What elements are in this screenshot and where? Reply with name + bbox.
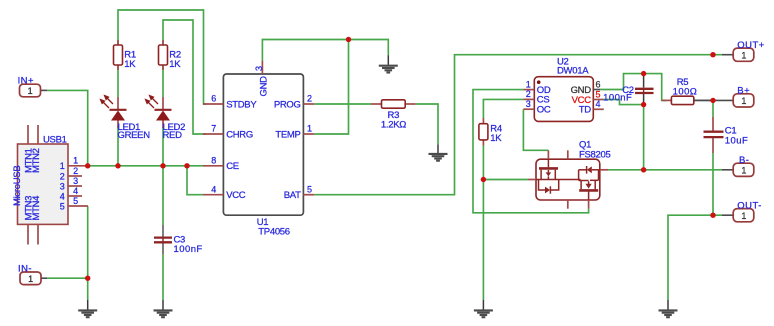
svg-text:MTN2: MTN2 — [31, 148, 42, 173]
svg-text:2: 2 — [526, 89, 531, 99]
svg-text:USB1: USB1 — [43, 135, 67, 146]
wire U2 VCC pin to C2 bottom — [603, 100, 644, 105]
svg-text:2: 2 — [73, 166, 78, 176]
svg-text:5: 5 — [73, 196, 78, 206]
svg-text:TP4056: TP4056 — [258, 227, 289, 238]
node R4/Q1 — [481, 177, 486, 182]
connector OUT- — [722, 200, 762, 222]
wire R1 top to STDBY — [118, 10, 206, 104]
svg-text:4: 4 — [73, 186, 78, 196]
resistor R2 — [159, 40, 182, 70]
wire R4 bottom to Q1 left pin and GND — [482, 146, 484, 300]
wire C3 to GND — [162, 254, 164, 299]
wire IN+ to rail — [47, 90, 87, 165]
svg-text:FS8205: FS8205 — [579, 149, 610, 160]
LED LED1 (green) — [101, 96, 151, 141]
wire C3 branch top — [162, 166, 164, 225]
svg-text:MicroUSB: MicroUSB — [12, 166, 23, 206]
wire C1 bottom to OUT- line — [712, 153, 714, 215]
node rail/IN+ — [85, 163, 90, 168]
svg-text:RED: RED — [163, 130, 183, 141]
svg-text:CHRG: CHRG — [226, 129, 253, 140]
svg-text:1K: 1K — [490, 133, 502, 144]
svg-text:1: 1 — [307, 124, 312, 134]
capacitor C3 — [154, 225, 203, 255]
connector B- — [722, 155, 754, 177]
svg-text:4: 4 — [596, 99, 601, 109]
ground (U1 GND net, top) — [379, 55, 398, 72]
svg-text:OUT-: OUT- — [737, 200, 762, 211]
node C2 top — [641, 71, 646, 76]
resistor R1 — [114, 40, 137, 70]
transistor Q1 FS8205 (dual MOSFET) — [528, 140, 610, 209]
svg-text:IN-: IN- — [18, 263, 32, 274]
svg-text:STDBY: STDBY — [226, 99, 257, 110]
node rail/LED1 — [115, 163, 120, 168]
svg-text:1: 1 — [741, 211, 746, 221]
svg-text:1: 1 — [741, 96, 746, 106]
node B+ — [710, 98, 715, 103]
svg-text:10uF: 10uF — [725, 135, 748, 146]
svg-text:B-: B- — [739, 155, 749, 166]
svg-text:1: 1 — [28, 86, 33, 96]
resistor R5 — [662, 77, 713, 104]
svg-text:VCC: VCC — [226, 190, 246, 201]
wire U2 CS to R4 — [483, 99, 523, 118]
svg-text:100nF: 100nF — [174, 244, 203, 255]
svg-text:6: 6 — [596, 79, 601, 89]
node C2 bottom — [641, 102, 646, 107]
wire BAT to OUT+ — [314, 55, 722, 195]
connector IN- — [18, 263, 47, 284]
svg-text:IN+: IN+ — [18, 76, 34, 87]
capacitor C1 — [704, 117, 749, 153]
svg-text:MTN4: MTN4 — [31, 196, 42, 221]
svg-text:5: 5 — [60, 201, 65, 211]
Q1 right MOSFET — [579, 170, 599, 200]
svg-text:B+: B+ — [737, 86, 750, 97]
wire R2 top to CHRG — [163, 20, 206, 134]
node rail/LED2/C3 — [160, 163, 165, 168]
svg-text:CE: CE — [226, 161, 239, 172]
capacitor C2 — [603, 74, 653, 105]
node B- line — [641, 167, 646, 172]
ground (R3) — [429, 145, 448, 161]
svg-text:1.2KΩ: 1.2KΩ — [381, 119, 406, 130]
wire PROG to R3 — [314, 103, 371, 105]
wire R3 right to GND — [416, 104, 438, 145]
wire U2 OC to Q1 gate1 — [523, 109, 548, 150]
svg-text:1: 1 — [741, 50, 746, 60]
svg-text:7: 7 — [211, 124, 216, 134]
svg-text:6: 6 — [211, 94, 216, 104]
svg-text:1: 1 — [28, 274, 33, 284]
ground (OUT-) — [659, 300, 678, 318]
svg-text:2: 2 — [307, 94, 312, 104]
svg-text:1: 1 — [60, 161, 65, 171]
svg-text:1K: 1K — [169, 59, 181, 70]
IC U2 DW01A — [523, 57, 603, 122]
Q1 pin stubs — [528, 150, 608, 208]
wire U1 GND pin3 net — [262, 40, 388, 61]
connector OUT+ — [722, 40, 765, 62]
svg-text:1: 1 — [741, 166, 746, 176]
USB connector USB1 — [12, 125, 88, 245]
wire C2 bottom to B- line — [643, 105, 645, 170]
svg-text:100Ω: 100Ω — [673, 87, 698, 98]
resistor R3 — [371, 100, 416, 131]
wire junction to Q1 left pin — [483, 179, 528, 181]
wire rail to U1 VCC pin — [187, 166, 203, 195]
wire C2 top to R5 — [644, 74, 667, 101]
wire C1 top lead upper — [712, 100, 714, 117]
svg-text:1: 1 — [526, 79, 531, 89]
wire R1 bottom to LED1 — [117, 65, 119, 97]
svg-text:TEMP: TEMP — [275, 129, 300, 140]
svg-text:TD: TD — [579, 105, 592, 116]
ground (IN-/USB) — [78, 300, 97, 318]
svg-text:DW01A: DW01A — [557, 66, 589, 77]
svg-text:3: 3 — [526, 99, 531, 109]
ground (R4/Q1) — [474, 300, 493, 318]
IC U1 TP4056 — [203, 61, 314, 238]
svg-text:4: 4 — [60, 191, 65, 201]
svg-text:3: 3 — [73, 176, 78, 186]
svg-text:PROG: PROG — [274, 99, 301, 110]
svg-text:OUT+: OUT+ — [737, 40, 764, 51]
Q1 left body diode — [539, 180, 559, 194]
node OUT- — [710, 213, 715, 218]
node rail/VCC — [184, 163, 189, 168]
resistor R4 — [479, 118, 502, 146]
svg-text:GREEN: GREEN — [118, 130, 151, 141]
connector B+ — [694, 86, 754, 108]
LED LED2 (red) — [146, 96, 185, 141]
svg-text:OC: OC — [537, 105, 551, 116]
wire TEMP to GND net — [314, 40, 348, 135]
svg-text:5: 5 — [307, 184, 312, 194]
wire LED1 to VCC rail — [117, 126, 119, 166]
wire R2 bottom to LED2 — [162, 65, 164, 97]
wire Q1 right pin to B- — [608, 169, 722, 171]
Q1 left MOSFET — [536, 159, 581, 179]
wire USB pin5 to IN- and GND — [87, 206, 89, 300]
node IN- — [85, 276, 90, 281]
svg-text:1K: 1K — [124, 59, 136, 70]
wire U2 GND pin to C2 top — [600, 74, 643, 90]
wire OUT- to GND — [668, 215, 722, 300]
node OUT+ — [710, 52, 715, 57]
svg-text:8: 8 — [211, 155, 216, 165]
svg-text:3: 3 — [254, 66, 264, 71]
connector IN+ — [18, 76, 48, 97]
wire LED2 to VCC rail — [162, 126, 164, 166]
wire VCC rail — [85, 165, 203, 167]
wire IN- to junction — [47, 277, 87, 279]
svg-text:100nF: 100nF — [603, 93, 632, 104]
svg-text:3: 3 — [60, 181, 65, 191]
svg-text:1: 1 — [73, 156, 78, 166]
ground (C3) — [154, 300, 173, 318]
node GND net — [346, 37, 351, 42]
svg-text:5: 5 — [596, 89, 601, 99]
Q1 right body diode — [579, 166, 600, 174]
svg-text:GND: GND — [259, 76, 270, 97]
wire U2 OD to Q1 gate2 — [473, 90, 589, 213]
svg-text:BAT: BAT — [284, 190, 301, 201]
svg-text:4: 4 — [211, 184, 216, 194]
svg-text:2: 2 — [60, 171, 65, 181]
